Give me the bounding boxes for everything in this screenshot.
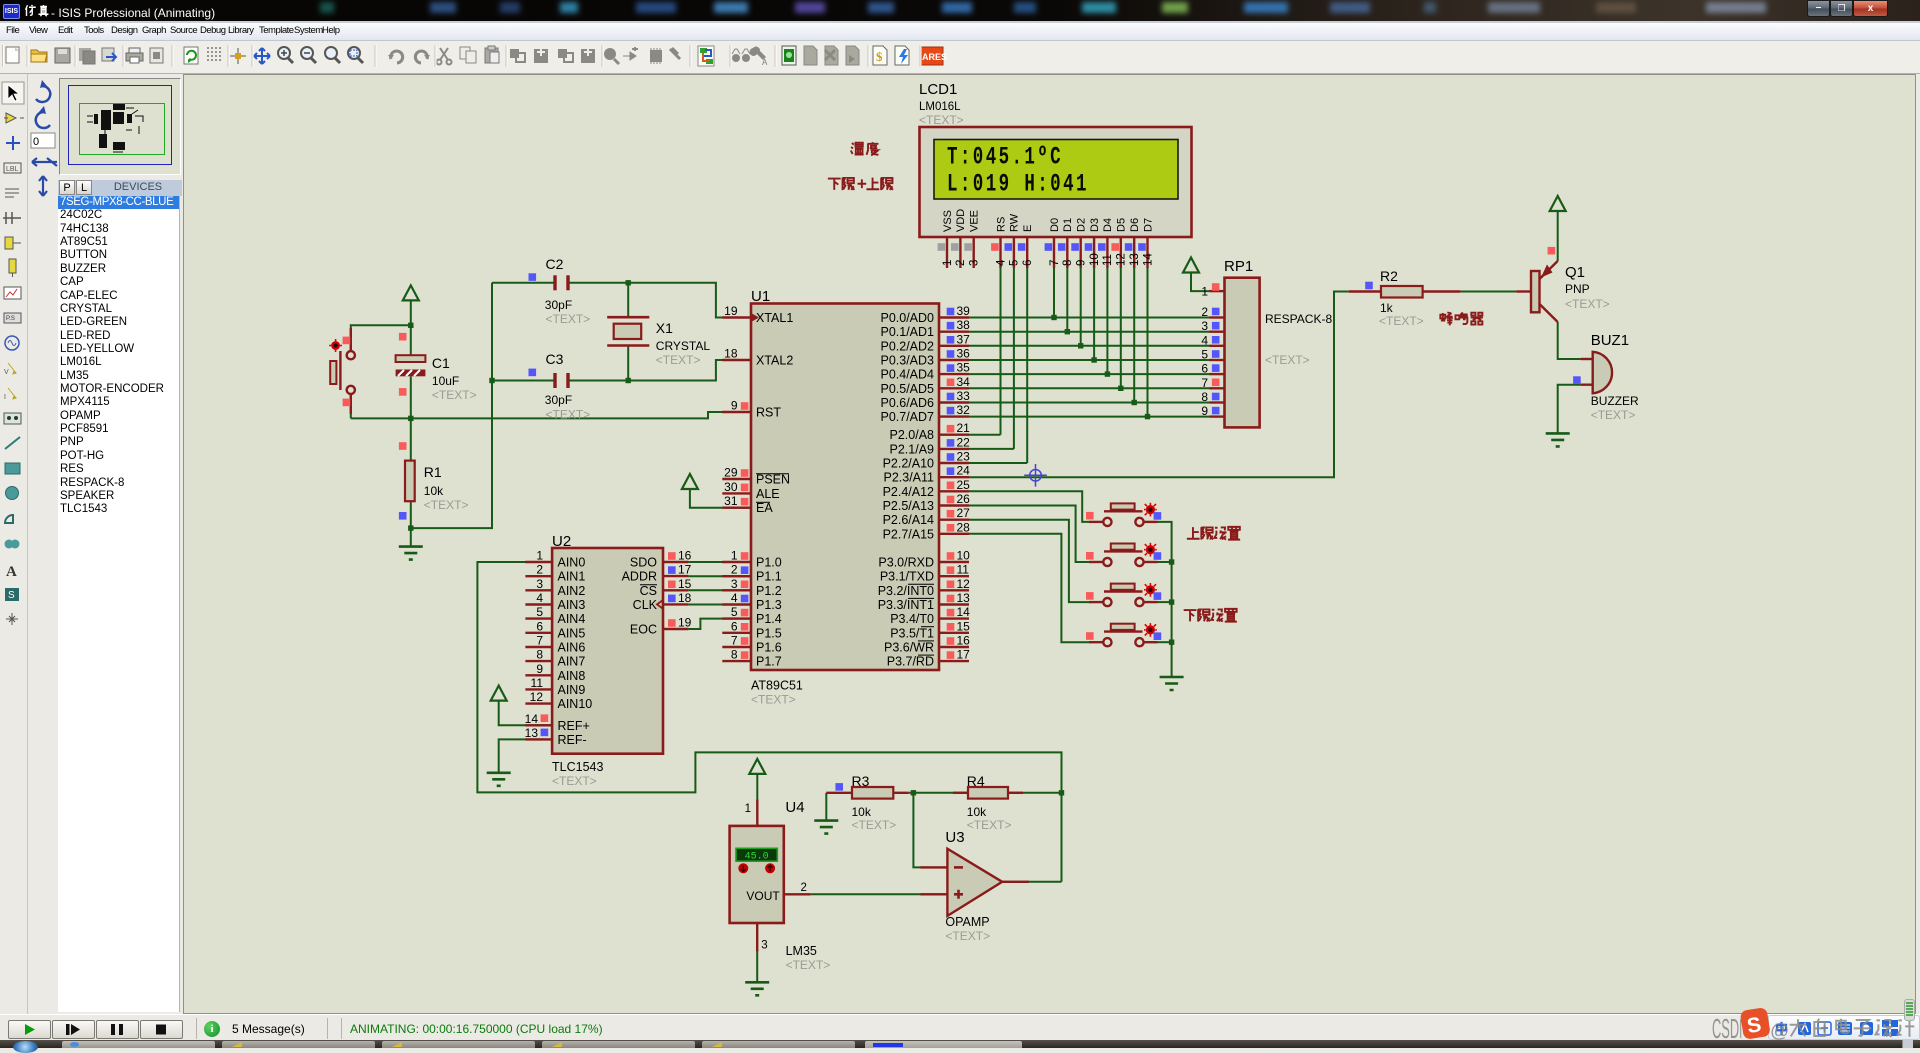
text label 下限+上限 [828, 178, 893, 190]
svg-text:D3: D3 [1089, 218, 1101, 232]
svg-text:P1.4: P1.4 [756, 612, 782, 626]
svg-text:C1: C1 [432, 355, 450, 371]
svg-text:EOC: EOC [630, 623, 657, 637]
svg-text:RW: RW [1009, 213, 1021, 232]
svg-text:4: 4 [1201, 333, 1208, 347]
svg-text:1: 1 [1201, 285, 1208, 299]
svg-text:P2.0/A8: P2.0/A8 [890, 428, 935, 442]
svg-text:9: 9 [1201, 404, 1208, 418]
svg-text:R1: R1 [424, 464, 442, 480]
svg-text:P0.0/AD0: P0.0/AD0 [880, 311, 934, 325]
svg-text:<TEXT>: <TEXT> [1591, 408, 1636, 422]
wire P2.1 to LCD [969, 448, 1014, 450]
svg-text:P1.7: P1.7 [756, 655, 782, 669]
wire crystal top [627, 283, 629, 317]
svg-text:1: 1 [536, 549, 543, 563]
svg-text:12: 12 [1116, 253, 1128, 266]
svg-text:<TEXT>: <TEXT> [852, 818, 897, 832]
svg-text:5: 5 [1009, 260, 1021, 266]
svg-text:<TEXT>: <TEXT> [919, 113, 964, 127]
svg-text:P.S: P.S [6, 316, 15, 322]
wire P0.0 to RP1 pin 2 [969, 317, 1210, 319]
wire C1 top [410, 325, 412, 355]
svg-text:1: 1 [942, 260, 954, 266]
svg-text:P3.6/WR: P3.6/WR [884, 641, 934, 655]
CSDN watermark [1700, 1008, 1920, 1044]
svg-text:VEE: VEE [969, 210, 981, 232]
svg-text:1: 1 [745, 803, 751, 815]
svg-text:AIN2: AIN2 [558, 584, 586, 598]
svg-text:8: 8 [731, 648, 738, 662]
svg-text:P2.6/A14: P2.6/A14 [883, 513, 934, 527]
svg-text:PNP: PNP [1565, 282, 1590, 296]
svg-text:0: 0 [33, 136, 39, 148]
wire LCD D1 to P0.1 [1066, 268, 1068, 332]
text label 下限设置 [1184, 609, 1237, 622]
simulation pause button [96, 1020, 139, 1039]
wire VCC to LM35 pin1 [756, 774, 758, 801]
svg-text:24: 24 [957, 464, 971, 478]
svg-text:31: 31 [724, 494, 738, 508]
text label 温度 [851, 142, 879, 155]
svg-text:<TEXT>: <TEXT> [1565, 297, 1610, 311]
svg-text:XTAL2: XTAL2 [756, 354, 793, 368]
svg-text:<TEXT>: <TEXT> [945, 929, 990, 943]
simulation step button [52, 1020, 95, 1039]
svg-text:<TEXT>: <TEXT> [656, 353, 701, 367]
wire key common rail to ground [1158, 522, 1172, 677]
svg-text:P1.0: P1.0 [756, 556, 782, 570]
wire C2 right to XTAL1 [570, 283, 752, 318]
svg-text:A: A [762, 58, 768, 67]
svg-text:XTAL1: XTAL1 [756, 311, 793, 325]
push button key3 [1086, 583, 1161, 606]
svg-text:15: 15 [957, 619, 971, 633]
U1 left pins [722, 304, 751, 662]
svg-text:LM35: LM35 [786, 944, 817, 958]
svg-text:10: 10 [957, 549, 971, 563]
svg-text:P2.2/A10: P2.2/A10 [883, 457, 934, 471]
svg-text:25: 25 [957, 478, 971, 492]
svg-text:10k: 10k [852, 805, 872, 819]
wire R3 to R4 node [909, 792, 968, 794]
svg-text:CS: CS [640, 584, 657, 598]
svg-text:11: 11 [1102, 254, 1114, 266]
devices list [58, 196, 180, 1012]
svg-text:AIN0: AIN0 [558, 556, 586, 570]
wire P2.3 to R2 [969, 292, 1349, 478]
svg-text:P2.7/A15: P2.7/A15 [883, 527, 934, 541]
svg-text:2: 2 [801, 882, 807, 894]
svg-text:U3: U3 [945, 829, 964, 846]
svg-text:14: 14 [957, 605, 971, 619]
svg-text:16: 16 [957, 634, 971, 648]
svg-text:P3.1/TXD: P3.1/TXD [880, 570, 934, 584]
wire P2.2 to LCD [969, 462, 1027, 464]
svg-text:LBL: LBL [6, 166, 19, 173]
push button reset [329, 328, 355, 414]
wire R3 left to ground [825, 793, 827, 821]
wire CS to P1.2 [688, 589, 751, 591]
wire C2 left [492, 282, 554, 284]
wire key 2 to rail [1158, 561, 1172, 563]
wire R4 right to feedback [1008, 792, 1062, 794]
wire net VCC to reset junction [410, 300, 412, 325]
wire P2.5 to key 2 [969, 506, 1090, 563]
message info icon [204, 1021, 220, 1037]
wire P0.5 to RP1 pin 7 [969, 387, 1210, 389]
title bar [0, 0, 1920, 23]
capacitor C1 10uF [396, 333, 426, 396]
svg-text:R2: R2 [1380, 268, 1398, 284]
svg-text:D5: D5 [1116, 218, 1128, 232]
svg-text:P2.3/A11: P2.3/A11 [883, 471, 934, 485]
scrollbar end icon [1904, 999, 1915, 1021]
power +5V VCC REF+ [491, 686, 507, 701]
op U1 AT89C51 microcontroller body [751, 304, 939, 671]
wire LCD D5 to P0.5 [1120, 268, 1122, 388]
wire P0.7 to RP1 pin 9 [969, 416, 1210, 418]
svg-text:16: 16 [678, 549, 692, 563]
svg-text:8: 8 [1062, 260, 1074, 266]
toolbar [0, 41, 1920, 74]
svg-text:10k: 10k [424, 484, 444, 498]
transistor Q1 PNP [1516, 247, 1558, 322]
wire Q1 emitter to VCC [1557, 211, 1559, 261]
wire RST net to R1 [410, 418, 412, 460]
svg-text:<TEXT>: <TEXT> [552, 774, 597, 788]
wire ADDR to P1.1 [688, 575, 751, 577]
svg-text:I: I [4, 394, 6, 401]
svg-text:1: 1 [731, 549, 738, 563]
wire C1 bottom to RST net [410, 376, 412, 418]
svg-text:7: 7 [536, 634, 543, 648]
resistor pack RP1 RESPACK-8 [1201, 278, 1259, 428]
simulation stop button [140, 1020, 183, 1039]
svg-text:R3: R3 [852, 773, 870, 789]
svg-text:D1: D1 [1062, 218, 1074, 232]
wire P0.3 to RP1 pin 5 [969, 359, 1210, 361]
wire LCD D3 to P0.3 [1093, 268, 1095, 360]
svg-text:18: 18 [678, 591, 692, 605]
svg-text:P2.5/A13: P2.5/A13 [883, 499, 934, 513]
svg-text:<TEXT>: <TEXT> [546, 312, 591, 326]
svg-text:P3.5/T1: P3.5/T1 [890, 626, 934, 640]
wire AIN0 to opamp output [477, 562, 1061, 882]
svg-text:P3.7/RD: P3.7/RD [887, 655, 934, 669]
svg-text:37: 37 [957, 332, 971, 346]
power +5V VCC reset [403, 285, 419, 300]
svg-text:4: 4 [731, 591, 738, 605]
svg-text:9: 9 [731, 399, 738, 413]
wire P2.0 to LCD [969, 434, 1001, 436]
power +5V VCC Q1 [1550, 196, 1566, 211]
svg-text:P0.5/AD5: P0.5/AD5 [880, 382, 934, 396]
svg-text:LM016L: LM016L [919, 101, 961, 113]
animating status text [350, 1022, 603, 1036]
svg-text:VOUT: VOUT [746, 889, 780, 903]
svg-text:<TEXT>: <TEXT> [1379, 314, 1424, 328]
svg-text:38: 38 [957, 318, 971, 332]
svg-text:9: 9 [536, 662, 543, 676]
svg-text:12: 12 [530, 690, 544, 704]
svg-text:RST: RST [756, 406, 781, 420]
svg-text:A: A [6, 564, 17, 580]
ground keys [1160, 677, 1184, 690]
svg-text:AIN1: AIN1 [558, 570, 586, 584]
svg-text:3: 3 [761, 940, 767, 952]
svg-text:12: 12 [957, 577, 971, 591]
svg-text:11: 11 [531, 676, 544, 690]
svg-text:P1.5: P1.5 [756, 626, 782, 640]
svg-text:3: 3 [731, 577, 738, 591]
svg-text:TLC1543: TLC1543 [552, 760, 603, 774]
wire RST net horizontal [351, 412, 751, 418]
svg-text:P0.4/AD4: P0.4/AD4 [880, 368, 934, 382]
svg-text:39: 39 [957, 304, 971, 318]
svg-text:U1: U1 [751, 288, 770, 305]
svg-text:SDO: SDO [630, 556, 657, 570]
svg-text:AIN3: AIN3 [558, 598, 586, 612]
svg-text:<TEXT>: <TEXT> [1265, 353, 1310, 367]
wire LCD E vertical [1026, 268, 1028, 463]
wire VCC to RP1 pin1 [1191, 272, 1210, 291]
svg-text:T:045.1ºC: T:045.1ºC [947, 144, 1063, 172]
crystal X1 [607, 317, 649, 345]
svg-text:7: 7 [731, 634, 738, 648]
wire R2 to Q1 base [1460, 291, 1516, 293]
push button key4 [1086, 623, 1161, 646]
svg-text:22: 22 [957, 435, 971, 449]
wire Q1 collector to buzzer [1558, 322, 1581, 359]
svg-text:AIN10: AIN10 [558, 697, 593, 711]
svg-text:5: 5 [731, 605, 738, 619]
svg-text:10uF: 10uF [432, 374, 459, 388]
wire button to RST net [350, 394, 352, 419]
resistor R2 1k [1349, 282, 1461, 298]
svg-text:E: E [1022, 225, 1034, 232]
svg-text:U2: U2 [552, 533, 571, 550]
svg-text:D7: D7 [1142, 218, 1154, 232]
svg-text:P1.6: P1.6 [756, 641, 782, 655]
overview mini-map panel [58, 74, 188, 180]
svg-text:2: 2 [731, 563, 738, 577]
op-amp U3 OPAMP [920, 849, 1029, 916]
svg-text:18: 18 [724, 347, 738, 361]
text label 蜂鸣器 [1440, 312, 1483, 325]
resistor R4 10k [953, 787, 1023, 799]
svg-text:$: $ [876, 49, 883, 64]
wire LCD RS vertical [1000, 268, 1002, 435]
svg-text:4: 4 [995, 259, 1007, 266]
svg-text:30pF: 30pF [545, 298, 572, 312]
capacitor C2 30pF [529, 273, 569, 290]
svg-text:7: 7 [1049, 260, 1061, 266]
svg-text:13: 13 [957, 591, 971, 605]
wire C3 right to XTAL2 [570, 360, 752, 381]
text label 上限设置 [1187, 527, 1240, 540]
wire P0.4 to RP1 pin 6 [969, 373, 1210, 375]
svg-text:1k: 1k [1380, 301, 1394, 315]
svg-text:13: 13 [525, 726, 539, 740]
svg-text:14: 14 [525, 712, 539, 726]
svg-text:7: 7 [1201, 376, 1208, 390]
svg-text:X1: X1 [656, 320, 673, 336]
U1 right pins [939, 304, 970, 662]
svg-text:P2.4/A12: P2.4/A12 [883, 485, 934, 499]
svg-text:@: @ [1770, 1021, 1789, 1042]
left tool palette [0, 74, 28, 1014]
wire LCD D6 to P0.6 [1133, 268, 1135, 403]
svg-text:13: 13 [1129, 253, 1141, 266]
svg-text:2: 2 [1201, 305, 1208, 319]
svg-text:5: 5 [1201, 348, 1208, 362]
svg-text:P3.3/INT1: P3.3/INT1 [878, 598, 934, 612]
svg-text:5: 5 [536, 605, 543, 619]
svg-text:3: 3 [1201, 319, 1208, 333]
svg-text:2: 2 [955, 260, 967, 266]
svg-text:P3.0/RXD: P3.0/RXD [878, 556, 934, 570]
wire VCC to EA [690, 489, 751, 508]
svg-text:U4: U4 [785, 799, 804, 816]
svg-text:EA: EA [756, 501, 773, 515]
windows taskbar [0, 1040, 1920, 1048]
IME language bar [1768, 1015, 1920, 1040]
wire C3 left [492, 380, 554, 382]
svg-text:30: 30 [724, 480, 738, 494]
svg-text:<TEXT>: <TEXT> [751, 693, 796, 707]
wire CLK to P1.3 [688, 604, 751, 606]
svg-text:D0: D0 [1049, 218, 1061, 232]
wire P2.6 to key 3 [969, 520, 1090, 602]
svg-text:21: 21 [957, 421, 971, 435]
svg-text:ARES: ARES [922, 52, 947, 62]
svg-text:AIN7: AIN7 [558, 655, 586, 669]
svg-text:RP1: RP1 [1224, 258, 1253, 275]
power +5V VCC LM35 [749, 759, 765, 774]
svg-text:REF-: REF- [558, 733, 587, 747]
ISIS application icon [3, 4, 20, 19]
LCD1 pins 1-14 [938, 237, 1155, 268]
svg-text:REF+: REF+ [558, 719, 590, 733]
devices header [58, 180, 182, 196]
svg-text:R4: R4 [967, 773, 985, 789]
push button key2 [1086, 543, 1161, 566]
svg-text:P1.1: P1.1 [756, 570, 782, 584]
svg-text:D4: D4 [1102, 218, 1114, 232]
svg-text:P0.3/AD3: P0.3/AD3 [880, 354, 934, 368]
svg-text:3: 3 [536, 577, 543, 591]
svg-text:6: 6 [1201, 362, 1208, 376]
wire LM35 pin3 to ground [756, 949, 758, 982]
op U2 TLC1543 ADC body [525, 548, 692, 754]
svg-text:23: 23 [957, 450, 971, 464]
wire buzzer to ground [1558, 385, 1581, 434]
wire REF- to ground [499, 739, 552, 772]
wire R1 bottom to ground node [410, 501, 412, 546]
svg-text:AIN9: AIN9 [558, 683, 586, 697]
wire P0.1 to RP1 pin 3 [969, 331, 1210, 333]
svg-text:VSS: VSS [942, 210, 954, 232]
svg-text:14: 14 [1142, 253, 1154, 266]
svg-text:11: 11 [957, 563, 970, 577]
svg-text:6: 6 [1022, 260, 1034, 266]
wire EOC to P1.4 [688, 619, 751, 629]
svg-text:RESPACK-8: RESPACK-8 [1265, 312, 1332, 326]
wire key 3 to rail [1158, 601, 1172, 603]
svg-text:15: 15 [678, 577, 692, 591]
wire LM35 VOUT to opamp + [811, 893, 948, 895]
svg-text:19: 19 [724, 304, 738, 318]
ground LM35 [745, 982, 769, 995]
wire P0.2 to RP1 pin 4 [969, 345, 1210, 347]
junction dots [1051, 315, 1056, 320]
status bar [0, 1014, 1920, 1040]
svg-text:P0.1/AD1: P0.1/AD1 [880, 325, 934, 339]
svg-text:P3.4/T0: P3.4/T0 [890, 612, 934, 626]
wire ground node to caps rail [411, 283, 492, 528]
svg-text:PSEN: PSEN [756, 473, 790, 487]
svg-text:2: 2 [536, 563, 543, 577]
svg-text:19: 19 [678, 616, 692, 630]
wire LCD D4 to P0.4 [1106, 268, 1108, 374]
svg-text:17: 17 [957, 648, 971, 662]
svg-text:30pF: 30pF [545, 393, 572, 407]
svg-text:OPAMP: OPAMP [945, 915, 989, 929]
svg-text:AIN4: AIN4 [558, 612, 586, 626]
svg-text:P0.6/AD6: P0.6/AD6 [880, 396, 934, 410]
svg-text:BUZZER: BUZZER [1591, 394, 1639, 408]
ground buzzer [1546, 433, 1570, 446]
svg-text:AIN8: AIN8 [558, 669, 586, 683]
svg-text:CRYSTAL: CRYSTAL [656, 339, 711, 353]
wire LCD D0 to P0.0 [1053, 268, 1055, 318]
wire LCD D7 to P0.7 [1147, 268, 1149, 417]
svg-text:<TEXT>: <TEXT> [432, 388, 477, 402]
svg-text:D2: D2 [1076, 218, 1088, 232]
svg-text:<TEXT>: <TEXT> [786, 958, 831, 972]
svg-text:CLK: CLK [633, 598, 658, 612]
wire LCD RW vertical [1013, 268, 1015, 449]
wire opamp output [1002, 881, 1061, 883]
wire LCD D2 to P0.2 [1080, 268, 1082, 346]
window title text [24, 0, 444, 23]
svg-text:<TEXT>: <TEXT> [967, 818, 1012, 832]
svg-text:<TEXT>: <TEXT> [546, 408, 591, 422]
svg-text:34: 34 [957, 375, 971, 389]
svg-text:33: 33 [957, 389, 971, 403]
orientation toolbar [28, 74, 58, 1014]
wire P2.7 to key 4 [969, 534, 1090, 642]
wire REF+ to VCC [499, 701, 552, 726]
svg-text:AIN6: AIN6 [558, 641, 586, 655]
svg-text:L:019 H:041: L:019 H:041 [947, 171, 1089, 199]
window buttons min/max/close [1807, 0, 1830, 17]
svg-text:32: 32 [957, 403, 971, 417]
resistor R1 10k [399, 442, 415, 519]
svg-text:9: 9 [1076, 260, 1088, 266]
svg-text:6: 6 [731, 619, 738, 633]
ground REF- [487, 773, 511, 786]
resistor R3 10k [826, 783, 909, 799]
wire reset node to button [351, 325, 411, 351]
svg-text:4: 4 [536, 591, 543, 605]
svg-text:6: 6 [536, 619, 543, 633]
svg-text:- ISIS Professional (Animating: - ISIS Professional (Animating) [51, 6, 215, 20]
svg-text:V: V [4, 369, 9, 376]
power +5V VCC EA [682, 474, 698, 489]
svg-text:10: 10 [1089, 253, 1101, 266]
